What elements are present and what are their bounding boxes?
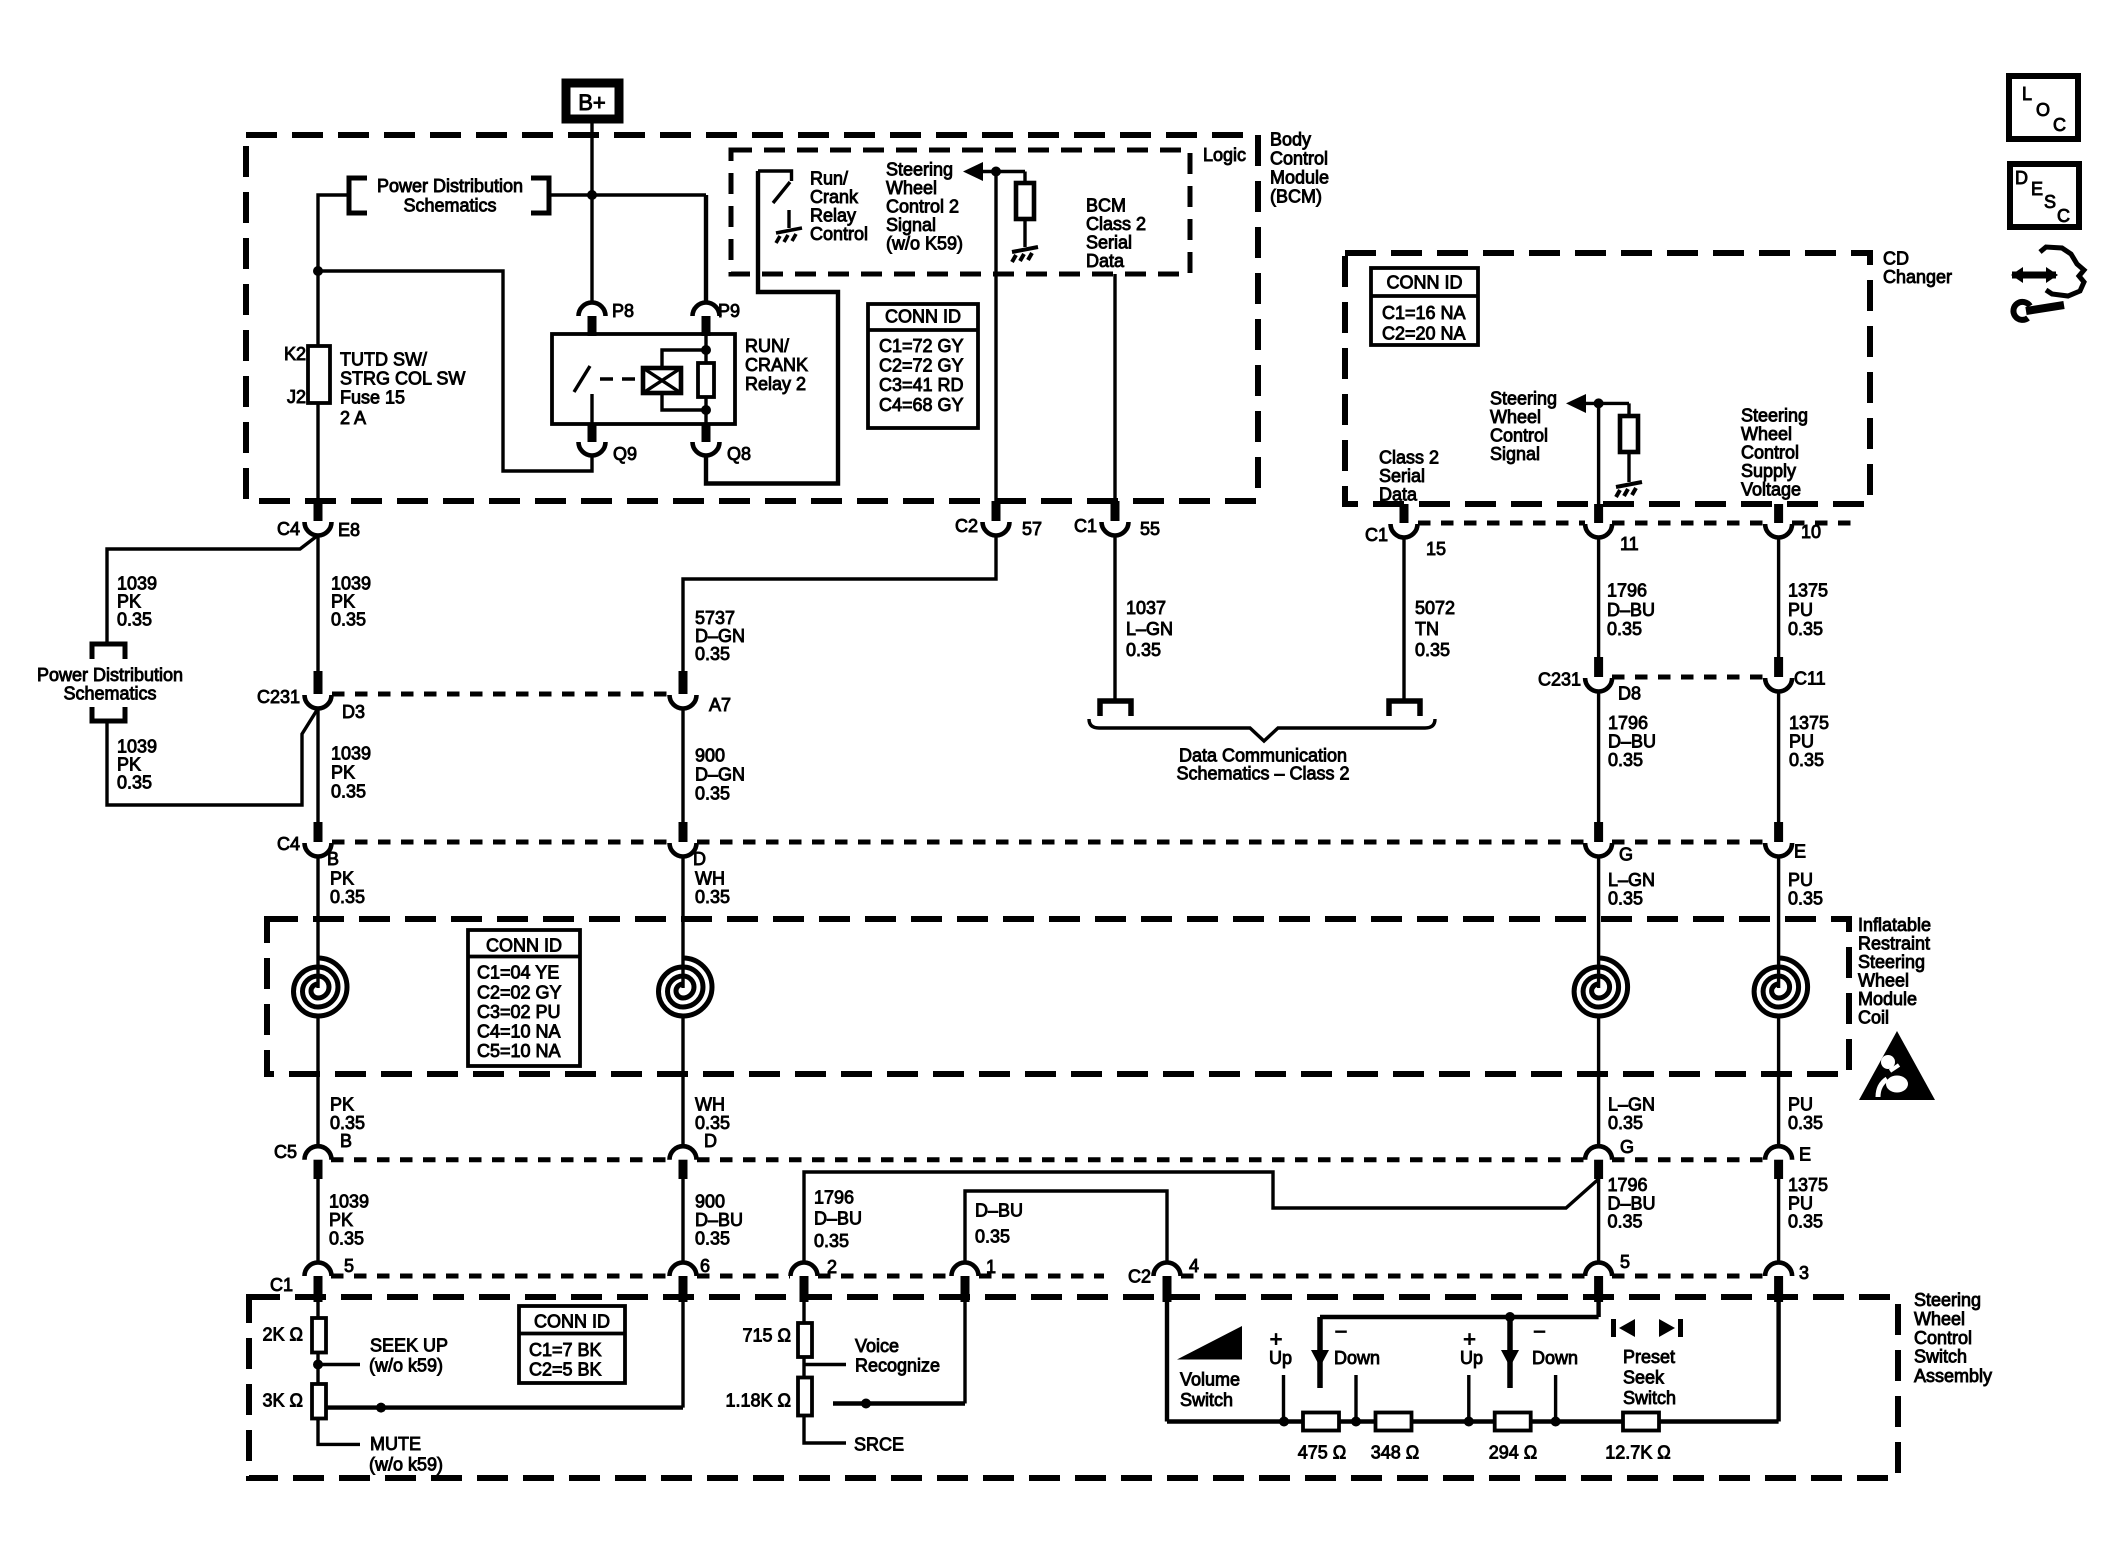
svg-text:Control: Control — [1914, 1328, 1972, 1348]
brace data communication — [1089, 719, 1435, 741]
svg-text:D–BU: D–BU — [1607, 600, 1655, 620]
svg-text:C1=04 YE: C1=04 YE — [477, 963, 559, 983]
connector A7 — [679, 671, 688, 694]
svg-text:0.35: 0.35 — [975, 1227, 1010, 1247]
svg-text:Voltage: Voltage — [1741, 480, 1801, 500]
svg-text:PK: PK — [117, 755, 141, 775]
svg-text:C4=10 NA: C4=10 NA — [477, 1022, 561, 1042]
svg-text:Logic: Logic — [1203, 145, 1246, 165]
svg-text:Up: Up — [1460, 1348, 1483, 1368]
svg-text:0.35: 0.35 — [695, 887, 730, 907]
svg-text:Steering: Steering — [886, 160, 953, 180]
seek down contact — [1554, 1375, 1557, 1422]
svg-text:C5: C5 — [274, 1142, 297, 1162]
svg-text:C: C — [2057, 206, 2070, 226]
connector G (coil top) — [1594, 822, 1603, 842]
resistor 348 — [1376, 1413, 1412, 1431]
svg-text:0.35: 0.35 — [1126, 640, 1161, 660]
svg-text:PU: PU — [1788, 1194, 1813, 1214]
wire B down to pin 5 — [316, 1179, 319, 1263]
connector pin P9 — [693, 303, 720, 317]
connector pin 3 — [1765, 1263, 1792, 1277]
switch rail — [1320, 1315, 1599, 1319]
svg-text:L–GN: L–GN — [1608, 1095, 1655, 1115]
svg-text:Wheel: Wheel — [1490, 407, 1541, 427]
svg-text:BCM: BCM — [1086, 196, 1126, 216]
svg-text:−: − — [1533, 1319, 1546, 1344]
svg-text:0.35: 0.35 — [1788, 1212, 1823, 1232]
svg-text:K2: K2 — [284, 344, 306, 364]
seek down wiper arrow — [1507, 1317, 1513, 1388]
connector C231 D8 — [1594, 657, 1603, 677]
relay dashed actuator line — [600, 377, 641, 381]
svg-text:Steering: Steering — [1490, 389, 1557, 409]
wire E8 to left off-page ref — [107, 536, 317, 644]
svg-text:C2=20 NA: C2=20 NA — [1382, 324, 1466, 344]
svg-text:1375: 1375 — [1788, 581, 1828, 601]
svg-text:5072: 5072 — [1415, 598, 1455, 618]
relay coil box with X — [643, 368, 681, 393]
svg-text:D: D — [693, 849, 706, 869]
svg-text:Serial: Serial — [1086, 233, 1132, 253]
connector C4 E8 — [314, 501, 323, 521]
wire thick feed down to P9 — [704, 195, 708, 303]
wire pin 4 down to bus — [1165, 1297, 1169, 1422]
svg-text:Voice: Voice — [855, 1336, 899, 1356]
svg-text:348 Ω: 348 Ω — [1371, 1443, 1420, 1463]
svg-text:Switch: Switch — [1914, 1347, 1967, 1367]
svg-text:715 Ω: 715 Ω — [743, 1326, 792, 1346]
connector C2 57 — [992, 501, 1001, 521]
wire E into coil — [1777, 856, 1780, 988]
svg-text:1375: 1375 — [1788, 1175, 1828, 1195]
coil spiral G — [1574, 958, 1628, 1016]
svg-text:E: E — [1794, 842, 1806, 862]
svg-text:PU: PU — [1788, 1095, 1813, 1115]
wire between 715 and 1.18K — [802, 1357, 805, 1378]
LOC box — [2009, 76, 2078, 139]
svg-text:PK: PK — [331, 763, 355, 783]
svg-text:4: 4 — [1189, 1256, 1199, 1276]
resistor 1.18K — [798, 1378, 812, 1416]
CONN ID table (coil) — [468, 930, 580, 1066]
svg-text:C4=68 GY: C4=68 GY — [879, 395, 964, 415]
svg-text:Run/: Run/ — [810, 169, 848, 189]
svg-text:O: O — [2036, 100, 2050, 120]
svg-text:3K Ω: 3K Ω — [263, 1390, 303, 1410]
svg-text:CONN ID: CONN ID — [534, 1312, 610, 1332]
svg-text:Steering: Steering — [1741, 406, 1808, 426]
svg-text:L–GN: L–GN — [1126, 619, 1173, 639]
wire voice recognize branch — [833, 1401, 965, 1405]
svg-text:10: 10 — [1801, 522, 1821, 542]
svg-text:SEEK UP: SEEK UP — [370, 1336, 448, 1356]
svg-text:0.35: 0.35 — [1415, 640, 1450, 660]
svg-text:294 Ω: 294 Ω — [1489, 1443, 1538, 1463]
connector pin 5 (right) — [1585, 1263, 1612, 1277]
node junction at fuse column — [313, 266, 323, 276]
svg-text:C3=41 RD: C3=41 RD — [879, 375, 964, 395]
svg-text:900: 900 — [695, 746, 725, 766]
wire A7 down to D — [681, 708, 684, 822]
svg-text:Control: Control — [810, 224, 868, 244]
svg-text:0.35: 0.35 — [695, 644, 730, 664]
svg-text:CRANK: CRANK — [745, 355, 808, 375]
svg-text:Relay 2: Relay 2 — [745, 374, 806, 394]
svg-text:D3: D3 — [342, 702, 365, 722]
svg-text:Data Communication: Data Communication — [1179, 746, 1347, 766]
svg-text:900: 900 — [695, 1192, 725, 1212]
wire B+ down to junction — [590, 123, 593, 195]
svg-text:Down: Down — [1532, 1348, 1578, 1368]
svg-text:Wheel: Wheel — [1741, 424, 1792, 444]
svg-text:CD: CD — [1883, 249, 1909, 269]
connector C231 D3 — [314, 671, 323, 694]
svg-text:Body: Body — [1270, 130, 1311, 150]
wire D3 down to B — [316, 708, 319, 822]
wire bracket to left column — [318, 195, 349, 346]
svg-text:Class 2: Class 2 — [1086, 214, 1146, 234]
wire G into coil — [1597, 856, 1600, 988]
wire bracket right to P9 feed — [549, 193, 706, 196]
svg-text:J2: J2 — [287, 387, 306, 407]
pull-up resistor in BCM — [1023, 172, 1026, 186]
vehicle data icon — [2040, 247, 2084, 296]
wire pin 1 down to voice bus — [963, 1297, 966, 1404]
svg-text:D: D — [704, 1131, 717, 1151]
svg-text:1039: 1039 — [331, 574, 371, 594]
svg-text:0.35: 0.35 — [695, 1113, 730, 1133]
coil spiral E — [1754, 958, 1808, 1016]
svg-text:D–BU: D–BU — [1608, 1194, 1656, 1214]
connector row C1 — [331, 1274, 669, 1279]
connector pin Q9 — [588, 424, 597, 442]
wire E8 down to D3 — [316, 535, 319, 671]
svg-text:WH: WH — [695, 869, 725, 889]
svg-text:2 A: 2 A — [340, 408, 366, 428]
svg-text:Data: Data — [1086, 251, 1125, 271]
svg-text:0.35: 0.35 — [695, 784, 730, 804]
svg-text:D–BU: D–BU — [1608, 732, 1656, 752]
svg-text:0.35: 0.35 — [331, 782, 366, 802]
svg-text:12.7K Ω: 12.7K Ω — [1605, 1443, 1671, 1463]
svg-text:3: 3 — [1799, 1263, 1809, 1283]
svg-text:D8: D8 — [1618, 684, 1641, 704]
svg-text:1039: 1039 — [329, 1192, 369, 1212]
connector C4 B — [314, 822, 323, 842]
svg-text:C11: C11 — [1794, 669, 1826, 689]
svg-text:−: − — [1335, 1319, 1348, 1344]
svg-text:Wheel: Wheel — [1914, 1309, 1965, 1329]
svg-text:Signal: Signal — [1490, 444, 1540, 464]
svg-text:RUN/: RUN/ — [745, 336, 789, 356]
svg-text:0.35: 0.35 — [1788, 619, 1823, 639]
svg-text:Power Distribution: Power Distribution — [377, 176, 523, 196]
connector C1 15 — [1400, 504, 1409, 523]
svg-text:C231: C231 — [1538, 670, 1581, 690]
CONN ID table (switch assembly) — [519, 1306, 625, 1383]
connector pin 10 — [1774, 504, 1783, 523]
svg-text:Switch: Switch — [1180, 1390, 1233, 1410]
CONN ID table (CD changer) — [1371, 268, 1478, 345]
svg-text:PK: PK — [117, 592, 141, 612]
svg-text:Assembly: Assembly — [1914, 1366, 1992, 1386]
svg-text:1: 1 — [986, 1257, 996, 1277]
connector C5 B — [305, 1146, 332, 1160]
wire mute branch to pin 6 — [327, 1405, 683, 1409]
svg-text:L: L — [2022, 84, 2032, 104]
svg-text:1796: 1796 — [1608, 1175, 1648, 1195]
svg-text:(w/o k59): (w/o k59) — [369, 1356, 443, 1376]
connector row C4 (coil top) — [332, 840, 669, 845]
svg-text:Schematics: Schematics — [63, 684, 156, 704]
connector C2 4 — [1154, 1263, 1181, 1277]
svg-text:PU: PU — [1788, 870, 1813, 890]
wire bus up to pin 3 — [1776, 1297, 1780, 1422]
svg-text:P8: P8 — [612, 301, 634, 321]
svg-text:PK: PK — [331, 592, 355, 612]
svg-text:C1=72 GY: C1=72 GY — [879, 336, 964, 356]
svg-text:1796: 1796 — [814, 1188, 854, 1208]
svg-text:Preset: Preset — [1623, 1347, 1675, 1367]
wire C1 15 down — [1402, 537, 1405, 700]
connector E (C5 row) — [1765, 1146, 1792, 1160]
wire BCM serial data down to C1 55 — [1113, 274, 1116, 501]
svg-text:Signal: Signal — [886, 215, 936, 235]
svg-text:G: G — [1619, 845, 1633, 865]
switch assembly dashed box — [249, 1297, 1898, 1478]
wire between 2K and 3K — [316, 1353, 319, 1385]
svg-text:Schematics – Class 2: Schematics – Class 2 — [1176, 764, 1349, 784]
svg-text:Power Distribution: Power Distribution — [37, 665, 183, 685]
wire Q8 to logic switch — [706, 171, 838, 484]
wire pin 1 to pin 4 — [965, 1191, 1167, 1263]
resistor 715 — [798, 1323, 812, 1357]
coil spiral D — [659, 958, 713, 1016]
svg-text:CONN ID: CONN ID — [885, 307, 961, 327]
wire D8 down to G — [1597, 691, 1600, 822]
connector C1 55 — [1111, 501, 1120, 521]
svg-text:0.35: 0.35 — [1788, 889, 1823, 909]
svg-text:1039: 1039 — [117, 574, 157, 594]
svg-text:E: E — [1799, 1145, 1811, 1165]
svg-text:G: G — [1620, 1137, 1634, 1157]
svg-text:Seek: Seek — [1623, 1368, 1665, 1388]
svg-text:C2: C2 — [1128, 1267, 1151, 1287]
run/crank relay control switch symbol — [758, 171, 792, 181]
wire D into coil — [681, 856, 684, 988]
svg-text:2K Ω: 2K Ω — [263, 1325, 303, 1345]
terminator bracket left — [1100, 701, 1131, 716]
connector row C5 — [331, 1157, 669, 1162]
svg-text:E: E — [2031, 179, 2043, 199]
svg-text:Fuse 15: Fuse 15 — [340, 388, 405, 408]
svg-text:D–BU: D–BU — [695, 1210, 743, 1230]
wire pin 2 to 715 — [802, 1297, 805, 1323]
svg-text:Q8: Q8 — [727, 444, 751, 464]
svg-text:Control: Control — [1741, 443, 1799, 463]
svg-text:C2=72 GY: C2=72 GY — [879, 356, 964, 376]
svg-text:MUTE: MUTE — [370, 1434, 421, 1454]
wire pin 5 down to rail — [1596, 1297, 1600, 1317]
airbag warning triangle — [1859, 1031, 1935, 1100]
svg-text:0.35: 0.35 — [331, 610, 366, 630]
svg-text:TN: TN — [1415, 619, 1439, 639]
wire G branch to pin 2 run — [804, 1172, 1599, 1263]
svg-text:PK: PK — [330, 1095, 354, 1115]
wire G down to pin 5 — [1597, 1179, 1600, 1263]
svg-text:CONN ID: CONN ID — [486, 936, 562, 956]
relay RUN/CRANK Relay 2 box — [552, 334, 735, 424]
wire C11 down to E — [1777, 691, 1780, 822]
ground in BCM — [1012, 247, 1038, 262]
svg-text:0.35: 0.35 — [329, 1229, 364, 1249]
svg-text:0.35: 0.35 — [330, 1113, 365, 1133]
svg-text:Control: Control — [1270, 149, 1328, 169]
svg-text:PK: PK — [329, 1210, 353, 1230]
wire signal down to C2 57 — [994, 172, 997, 502]
svg-text:0.35: 0.35 — [1608, 889, 1643, 909]
svg-text:E8: E8 — [338, 520, 360, 540]
relay coil loop — [662, 350, 706, 410]
svg-text:Switch: Switch — [1623, 1388, 1676, 1408]
svg-text:Volume: Volume — [1180, 1370, 1240, 1390]
svg-text:1039: 1039 — [117, 737, 157, 757]
svg-text:D–GN: D–GN — [695, 765, 745, 785]
svg-text:Class 2: Class 2 — [1379, 448, 1439, 468]
pull-up resistor in CD changer — [1627, 403, 1630, 418]
svg-text:Inflatable: Inflatable — [1858, 915, 1931, 935]
BCM outer dashed box — [246, 135, 1258, 501]
off-page ref: Power Distribution Schematics (top) — [349, 178, 367, 213]
preset seek icons — [1611, 1319, 1616, 1337]
svg-text:1037: 1037 — [1126, 598, 1166, 618]
connector pin Q8 — [702, 424, 711, 442]
svg-text:Supply: Supply — [1741, 461, 1796, 481]
svg-text:B+: B+ — [578, 90, 606, 115]
ground in CD changer — [1616, 482, 1642, 497]
svg-text:STRG COL SW: STRG COL SW — [340, 369, 465, 389]
svg-text:0.35: 0.35 — [814, 1231, 849, 1251]
connector row CD — [1418, 521, 1585, 526]
svg-text:Down: Down — [1334, 1348, 1380, 1368]
svg-text:Wheel: Wheel — [886, 178, 937, 198]
fuse K2 TUTD SW/STRG COL SW Fuse 15 2A — [308, 346, 330, 403]
svg-text:0.35: 0.35 — [117, 773, 152, 793]
svg-text:A7: A7 — [709, 695, 731, 715]
connector row C231 left — [332, 692, 669, 697]
svg-text:1039: 1039 — [331, 744, 371, 764]
svg-text:C1=7 BK: C1=7 BK — [529, 1340, 602, 1360]
svg-text:Up: Up — [1269, 1348, 1292, 1368]
wire pin 11 down to D8 — [1597, 537, 1600, 657]
svg-text:5737: 5737 — [695, 608, 735, 628]
svg-text:0.35: 0.35 — [1608, 1212, 1643, 1232]
svg-text:D–BU: D–BU — [975, 1201, 1023, 1221]
svg-text:C1: C1 — [270, 1275, 293, 1295]
wire E down to pin 3 — [1777, 1179, 1780, 1263]
svg-text:Serial: Serial — [1379, 466, 1425, 486]
relay switch blade — [574, 366, 590, 392]
resistor bus — [1167, 1419, 1303, 1423]
svg-text:0.35: 0.35 — [117, 610, 152, 630]
steering wheel control 2 signal arrow — [963, 162, 983, 181]
connector E (coil top) — [1774, 822, 1783, 842]
svg-text:C3=02 PU: C3=02 PU — [477, 1002, 561, 1022]
svg-text:L–GN: L–GN — [1608, 870, 1655, 890]
wire B into coil — [316, 856, 319, 988]
coil spiral B — [294, 958, 348, 1016]
resistor 12.7K — [1623, 1413, 1659, 1431]
connector D (C5 row) — [670, 1146, 697, 1160]
svg-text:Coil: Coil — [1858, 1008, 1889, 1028]
svg-text:Crank: Crank — [810, 187, 859, 207]
svg-text:PU: PU — [1788, 600, 1813, 620]
relay parallel resistor — [704, 334, 707, 363]
svg-text:PU: PU — [1789, 732, 1814, 752]
connector C11 — [1774, 657, 1783, 677]
node seek up tap — [313, 1360, 323, 1370]
svg-text:Relay: Relay — [810, 206, 856, 226]
coil module dashed box — [267, 919, 1849, 1074]
logic inner dashed box — [731, 150, 1190, 274]
svg-text:C1: C1 — [1074, 516, 1097, 536]
CD changer dashed box — [1345, 253, 1870, 504]
volume switch icon — [1177, 1326, 1242, 1360]
wire pin 5 to 2K — [316, 1297, 319, 1318]
svg-text:D: D — [2015, 168, 2028, 188]
resistor 294 — [1495, 1413, 1531, 1431]
svg-text:D–GN: D–GN — [695, 626, 745, 646]
wire 1.18K to SRCE — [804, 1416, 846, 1444]
svg-text:P9: P9 — [718, 301, 740, 321]
terminator bracket right — [1389, 701, 1420, 716]
svg-text:Data: Data — [1379, 485, 1418, 505]
svg-text:5: 5 — [1620, 1252, 1630, 1272]
svg-text:0.35: 0.35 — [330, 887, 365, 907]
svg-text:CONN ID: CONN ID — [1387, 273, 1463, 293]
wire pin 10 down to C11 — [1777, 537, 1780, 657]
svg-text:1375: 1375 — [1789, 713, 1829, 733]
svg-text:0.35: 0.35 — [1789, 750, 1824, 770]
svg-text:C2=02 GY: C2=02 GY — [477, 982, 562, 1002]
svg-text:Wheel: Wheel — [1858, 971, 1909, 991]
wire C2 57 to A7 — [683, 535, 996, 671]
svg-text:(w/o k59): (w/o k59) — [369, 1455, 443, 1475]
svg-text:Steering: Steering — [1914, 1290, 1981, 1310]
connector D (coil top) — [679, 822, 688, 842]
connector pin 11 — [1594, 504, 1603, 523]
wire left ref down and around to D3 — [107, 710, 317, 805]
svg-text:Schematics: Schematics — [403, 196, 496, 216]
svg-text:15: 15 — [1426, 539, 1446, 559]
svg-text:Changer: Changer — [1883, 267, 1952, 287]
wire junction down to P8 — [590, 195, 593, 303]
svg-text:C4: C4 — [277, 834, 300, 854]
resistor 2K — [312, 1318, 326, 1353]
svg-text:57: 57 — [1022, 519, 1042, 539]
svg-text:Q9: Q9 — [613, 444, 637, 464]
svg-text:TUTD SW/: TUTD SW/ — [340, 350, 427, 370]
svg-text:5: 5 — [344, 1256, 354, 1276]
svg-text:D–BU: D–BU — [814, 1209, 862, 1229]
svg-text:C2: C2 — [955, 516, 978, 536]
svg-text:0.35: 0.35 — [1608, 750, 1643, 770]
svg-text:11: 11 — [1620, 534, 1639, 554]
resistor 475 — [1303, 1413, 1339, 1431]
svg-text:Module: Module — [1858, 989, 1917, 1009]
svg-text:0.35: 0.35 — [695, 1229, 730, 1249]
